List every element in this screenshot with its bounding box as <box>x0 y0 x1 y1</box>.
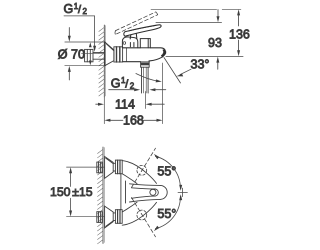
svg-text:55°: 55° <box>157 207 176 221</box>
extension line closed lever top <box>156 22 222 24</box>
svg-text:136: 136 <box>229 27 250 41</box>
extension line raised lever top <box>151 8 241 10</box>
supply pipe through wall (side view) <box>93 53 104 60</box>
dimension Ø70 arrows <box>68 28 92 81</box>
dimension Ø70 leader <box>82 53 104 55</box>
dimension 114 witness line <box>144 92 146 109</box>
top 55 degree arc with arrows <box>154 154 182 191</box>
diverter knob (side view) <box>140 39 150 48</box>
wall (front view) <box>103 147 105 244</box>
svg-text:/: / <box>125 78 129 90</box>
bottom union sleeve (front view) <box>113 213 115 221</box>
hand shower hose (side view) <box>142 67 149 93</box>
faucet body (side view) <box>123 48 165 62</box>
svg-text:33°: 33° <box>191 57 210 71</box>
dimension 150 witness lines <box>67 167 105 217</box>
top 55 degree dashed line <box>132 148 156 187</box>
wall hatching (side view) <box>99 27 105 96</box>
extension line spout outlet level <box>166 55 243 57</box>
top inlet dashed circle (front view) <box>137 165 147 175</box>
bottom union escutcheon (front view) <box>105 206 114 228</box>
dimension 114 arrows <box>96 103 165 106</box>
dimension Ø70 label <box>58 48 85 62</box>
svg-text:Ø 70: Ø 70 <box>58 48 85 62</box>
dimension 136 line and arrows <box>237 9 240 56</box>
cartridge dome (side view) <box>122 37 137 48</box>
33 degree arc arrow left <box>136 74 162 83</box>
dimension G1/2 bottom arrows <box>109 88 166 91</box>
33 degree leader with arrowhead <box>176 69 191 76</box>
hand shower connector (side view) <box>141 62 150 67</box>
top union nut behind wall (front view) <box>97 162 102 173</box>
lever handle raised dashed (side view) <box>115 12 158 36</box>
faucet body bottom arm (front view) <box>122 202 156 225</box>
svg-text:150±15: 150±15 <box>50 185 93 199</box>
spout tip end face (side view) <box>161 50 166 58</box>
svg-text:/: / <box>78 4 82 16</box>
dimension Ø70 witness lines <box>65 42 105 66</box>
dimension 150 line and arrows <box>69 167 72 216</box>
svg-text:114: 114 <box>115 97 135 111</box>
axis cross (front view) <box>178 188 187 197</box>
wall hatching (front view) <box>98 149 104 244</box>
svg-text:2: 2 <box>83 7 88 16</box>
svg-text:168: 168 <box>123 113 144 127</box>
33 degree slanted stream line <box>164 58 181 84</box>
dimension G1/2 bottom label <box>111 76 135 90</box>
connection nut (side view) <box>114 47 123 62</box>
escutcheon cone (side view) <box>105 42 114 66</box>
dimension 168 line and arrows <box>104 119 162 122</box>
svg-text:2: 2 <box>130 81 135 90</box>
svg-text:G: G <box>111 76 121 90</box>
union nut behind wall (side view) <box>85 49 93 61</box>
dimension G1/2 top label <box>64 2 88 16</box>
top union nut (front view) <box>115 160 122 174</box>
svg-text:55°: 55° <box>157 165 176 179</box>
dimension G1/2 top leader <box>64 16 95 47</box>
lever handle closed (side view) <box>124 25 161 39</box>
bottom inlet dashed circle (front view) <box>137 210 147 220</box>
top union escutcheon (front view) <box>105 157 114 179</box>
bottom 55 degree arc with arrows <box>154 194 182 231</box>
wall (side view) <box>104 25 105 97</box>
bottom 55 degree dashed line <box>132 198 156 237</box>
svg-text:93: 93 <box>208 36 222 50</box>
lever outline (front view) <box>130 184 168 202</box>
bottom union nut (front view) <box>115 210 122 224</box>
bottom union nut behind wall (front view) <box>97 212 102 223</box>
faucet body top arm (front view) <box>122 161 156 184</box>
dimension G1/2 top arrowhead <box>93 46 96 52</box>
top union sleeve (front view) <box>113 163 115 171</box>
svg-text:G: G <box>64 2 74 16</box>
dimension 168 witness lines <box>104 63 162 124</box>
faucet body column (front view) <box>121 174 126 209</box>
lever inner outline (front view) <box>132 188 159 199</box>
lever button circle (front view) <box>150 189 156 195</box>
dimension 93 arrows <box>216 10 219 70</box>
